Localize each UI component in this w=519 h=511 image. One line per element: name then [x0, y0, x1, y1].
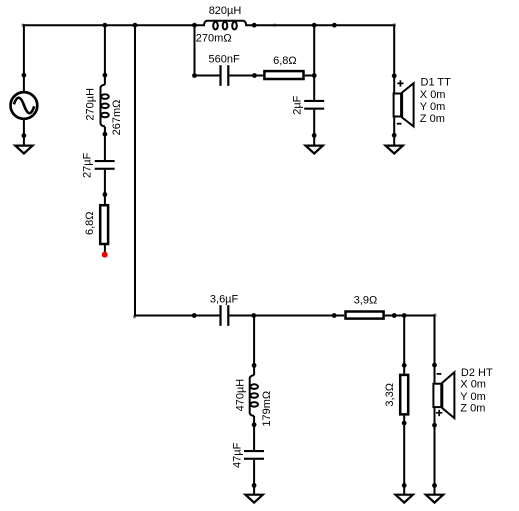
svg-text:3,9Ω: 3,9Ω [354, 294, 378, 306]
svg-text:820µH: 820µH [209, 5, 242, 17]
svg-text:179mΩ: 179mΩ [261, 391, 273, 427]
svg-text:D1 TT: D1 TT [421, 77, 452, 89]
svg-text:267mΩ: 267mΩ [111, 100, 123, 136]
svg-text:270µH: 270µH [85, 88, 97, 121]
svg-text:X 0m: X 0m [460, 379, 486, 391]
svg-text:6,8Ω: 6,8Ω [273, 55, 297, 67]
svg-text:Y 0m: Y 0m [460, 391, 485, 403]
svg-text:X 0m: X 0m [420, 89, 446, 101]
svg-text:3,6µF: 3,6µF [210, 294, 239, 306]
svg-text:6,8Ω: 6,8Ω [84, 211, 96, 235]
svg-text:2µF: 2µF [292, 95, 304, 114]
svg-text:3,3Ω: 3,3Ω [384, 383, 396, 407]
svg-text:27µF: 27µF [81, 152, 93, 178]
svg-text:470µH: 470µH [234, 379, 246, 412]
svg-text:Z 0m: Z 0m [420, 113, 445, 125]
svg-text:560nF: 560nF [209, 53, 240, 65]
svg-text:270mΩ: 270mΩ [196, 32, 232, 44]
svg-text:47µF: 47µF [232, 442, 244, 468]
svg-text:Y 0m: Y 0m [420, 101, 445, 113]
svg-text:Z 0m: Z 0m [460, 403, 485, 415]
svg-text:D2 HT: D2 HT [461, 367, 493, 379]
